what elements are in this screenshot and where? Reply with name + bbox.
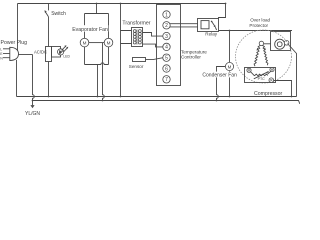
svg-text:Sensor: Sensor: [129, 64, 144, 69]
wire sensor to controller pin5: [146, 58, 164, 60]
wire evap feed drop: [96, 4, 98, 14]
winding run coil zigzag right: [262, 45, 268, 65]
label Over load Protector: [249, 18, 270, 28]
svg-text:Controller: Controller: [181, 54, 201, 59]
node junction top bus relay corner: [225, 3, 227, 5]
wire bottom bus1: [17, 96, 297, 98]
node junction bus2 ground: [32, 100, 34, 102]
node junction condenser earth bus2: [216, 100, 218, 102]
wire PTC to bus1: [274, 81, 292, 97]
wire top bus L: [18, 3, 226, 5]
svg-text:PTC: PTC: [258, 77, 266, 81]
compressor shell: [236, 30, 292, 83]
wire bottom bus2: [33, 101, 300, 104]
node junction adapter bus1: [48, 96, 50, 98]
temperature controller U1: [157, 5, 181, 86]
svg-text:2: 2: [165, 23, 168, 29]
wire common to overload: [264, 43, 271, 45]
PTC starter box: [245, 68, 276, 83]
wire transformer to controller pin4: [143, 44, 164, 47]
wire link between fan motors: [89, 42, 104, 44]
switch S1: [44, 4, 66, 17]
wire evap bottom rail with hop: [85, 63, 109, 65]
svg-text:LED: LED: [63, 55, 70, 59]
label Condenser Fan: [202, 72, 237, 79]
svg-text:L: L: [0, 47, 2, 51]
ground earth symbol YL/GN: [25, 101, 40, 118]
wire N drop with hop over bus1: [33, 55, 35, 101]
wire transformer primary leads: [121, 31, 132, 44]
wire condenser feed: [229, 31, 231, 63]
wire plug right to N drop: [19, 54, 33, 56]
node junction top bus transformer feed: [120, 3, 122, 5]
svg-text:Transformer: Transformer: [122, 21, 150, 27]
motor evaporator fan M1: [80, 38, 89, 47]
wire evap neutral drop: [97, 65, 99, 97]
motor condenser fan M3: [225, 62, 233, 70]
svg-text:Condenser Fan: Condenser Fan: [202, 73, 237, 79]
label Evaporator Fan: [72, 25, 109, 33]
node junction transformer rail bus1: [120, 96, 122, 98]
svg-text:M: M: [228, 64, 232, 69]
node junction relay out condenser tap: [229, 30, 231, 32]
svg-text:3: 3: [165, 34, 168, 40]
wire top bus down to relay switch: [219, 4, 226, 19]
wire condenser bottom to bus1: [229, 71, 231, 97]
transformer T1: [132, 28, 143, 47]
svg-text:6: 6: [165, 66, 168, 72]
node junction evap bus1: [97, 96, 99, 98]
node compressor common terminal: [259, 41, 263, 45]
svg-text:7: 7: [165, 77, 168, 83]
wire transformer to controller pin3: [143, 33, 164, 37]
AC/DC adapter U2: [34, 47, 52, 62]
svg-text:4: 4: [165, 45, 168, 51]
svg-text:Switch: Switch: [51, 11, 66, 17]
svg-text:YL/GN: YL/GN: [25, 111, 40, 117]
wire earth tap from link with hops: [103, 43, 105, 101]
wire controller pin2 ribbon to relay: [170, 24, 198, 27]
wire adapter down to bus1: [48, 62, 50, 97]
svg-text:Compressor: Compressor: [254, 91, 283, 97]
node junction PTC bus1: [291, 96, 293, 98]
wire relay output: [219, 30, 293, 32]
wire overload to bus1 right riser: [289, 45, 297, 97]
svg-text:M: M: [83, 40, 87, 45]
node junction condenser bus1: [229, 96, 231, 98]
wire condenser left to earth with hop: [217, 67, 226, 101]
wire evap motor top leads: [85, 14, 109, 39]
relay K1: [198, 19, 219, 37]
node junction tap bus2: [102, 100, 104, 102]
wire plug E down to bus1: [16, 60, 18, 97]
svg-text:M: M: [107, 40, 111, 45]
node junction top bus evap feed: [96, 3, 98, 5]
winding start coil zigzag left: [254, 45, 260, 66]
wire switch to adapter: [48, 17, 50, 47]
svg-text:AC/DC: AC/DC: [34, 49, 47, 54]
wire evap top rail: [85, 13, 109, 15]
sensor RT1: [129, 58, 146, 70]
svg-text:Relay: Relay: [205, 32, 217, 37]
svg-text:Protector: Protector: [249, 23, 268, 28]
svg-text:1: 1: [165, 12, 168, 18]
svg-text:Power Plug: Power Plug: [1, 40, 28, 46]
power plug P1: [0, 40, 27, 61]
wire evap motor bottom leads: [85, 47, 109, 65]
wire transformer left rail: [120, 4, 122, 97]
motor evaporator fan M2: [104, 38, 113, 47]
LED D1: [58, 45, 71, 58]
overload protector F1: [271, 32, 291, 51]
label Temperature Controller: [181, 49, 207, 59]
svg-text:5: 5: [165, 56, 168, 62]
wire plug L up to top bus: [17, 4, 19, 51]
svg-text:Evaporator Fan: Evaporator Fan: [72, 27, 108, 33]
wire LED loop: [52, 47, 61, 58]
